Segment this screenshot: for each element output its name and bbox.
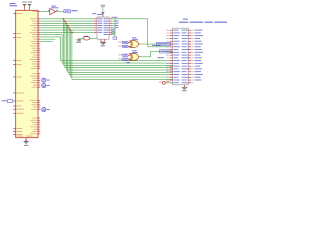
power symbol VCC [22, 2, 27, 6]
connector J1 body [173, 28, 189, 85]
inverter U2 [48, 9, 57, 15]
IC U1 right pin name texts [30, 11, 38, 134]
wire U1 to U2 input [40, 11, 50, 13]
power pin VCC wire [24, 5, 26, 10]
U3 top power pin [102, 13, 104, 17]
gate U4A [129, 37, 138, 47]
IC U1 left pin stubs [13, 14, 16, 135]
U3 lower right pin labels [111, 29, 114, 34]
power flag above U3 [101, 5, 106, 14]
net name text on MISO wire [158, 57, 164, 58]
power symbol AVCC [28, 2, 33, 6]
net name text on SPI wire [152, 45, 161, 46]
no-connect glyph X2 right of U1 [42, 84, 50, 88]
no-connect glyph X3 right of U1 [42, 108, 50, 112]
ground symbol below J1 [182, 87, 188, 91]
U3 right side net labels [114, 21, 118, 29]
U2 reference and value text [51, 6, 58, 9]
U3 bottom pins [101, 39, 104, 42]
power pin AVCC wire [29, 5, 31, 10]
U3 right pin stubs [109, 19, 112, 35]
global label on U4B output [160, 50, 172, 53]
wire SPI row to J1 [148, 46, 173, 48]
U4A output wire to J1 [139, 43, 173, 45]
ground symbol below U1 [24, 142, 29, 146]
U4A input label A [119, 41, 131, 43]
J1 right pin numbers [192, 30, 194, 83]
horizontal wire fan to connector J1 [61, 61, 173, 80]
global label NRST [64, 10, 78, 13]
vertical wire bus dropping down [61, 19, 72, 80]
gate U4B [129, 50, 138, 60]
global label on U4A output [157, 42, 171, 45]
label at bottom of vertical wire [113, 37, 117, 39]
IC U1 left pin name texts [16, 13, 24, 135]
U4B output wire to J1 [139, 51, 173, 57]
IC U3 body [97, 17, 109, 39]
wire U3 pin1 across to right [112, 18, 148, 20]
no-connect glyph X1 right of U1 [42, 78, 50, 82]
J1 right side net labels [195, 30, 204, 81]
vertical wire from top net down to SPI row [147, 19, 149, 47]
U4A input label B [119, 45, 131, 47]
U3 right pin names [104, 18, 109, 35]
IC U1 right pin stubs [38, 12, 40, 134]
ground symbol left of C1 [76, 39, 81, 43]
U3 right side short stub wires [112, 21, 114, 28]
J1 right column pin names [182, 30, 189, 83]
IC U1 microcontroller body [16, 10, 38, 137]
connector J1 reference text [183, 19, 188, 20]
U4B input label A [119, 54, 131, 56]
IC U1 reference and value text [10, 3, 18, 6]
U3 lower right stub wires [112, 30, 115, 34]
IC U1 ground pin [25, 138, 27, 142]
J1 right pin stubs [188, 30, 191, 83]
J1 left pin numbers [166, 30, 168, 83]
power symbol +5V at J1 bottom left [159, 81, 173, 84]
wire to left label [12, 100, 15, 102]
connector J1 title text [179, 22, 227, 23]
wire bus U1 to U3 rows [40, 19, 94, 33]
U3 left pin names [98, 18, 103, 33]
wire U2 output to NRST label [56, 11, 64, 13]
U3 reference text [92, 13, 102, 15]
junction dots on bus [63, 18, 73, 33]
U4B input label B [119, 58, 131, 60]
J1 left column pin names [173, 30, 180, 83]
capacitor C1 [79, 36, 97, 40]
extra wires from U1 to vertical bus [40, 35, 62, 42]
global label ADC6 at U1 left [2, 100, 13, 103]
vertical wire down from U3 pin1 wire [114, 19, 116, 37]
IC U1 bottom area pin texts [16, 135, 32, 138]
U3 left pin stubs [94, 19, 97, 33]
J1 ground pin [184, 85, 186, 87]
J1 left pin stubs [170, 30, 173, 83]
net name text on U3 pin1 wire [112, 16, 118, 19]
label below U4B [126, 62, 129, 63]
ground symbol below U3 [100, 42, 106, 46]
